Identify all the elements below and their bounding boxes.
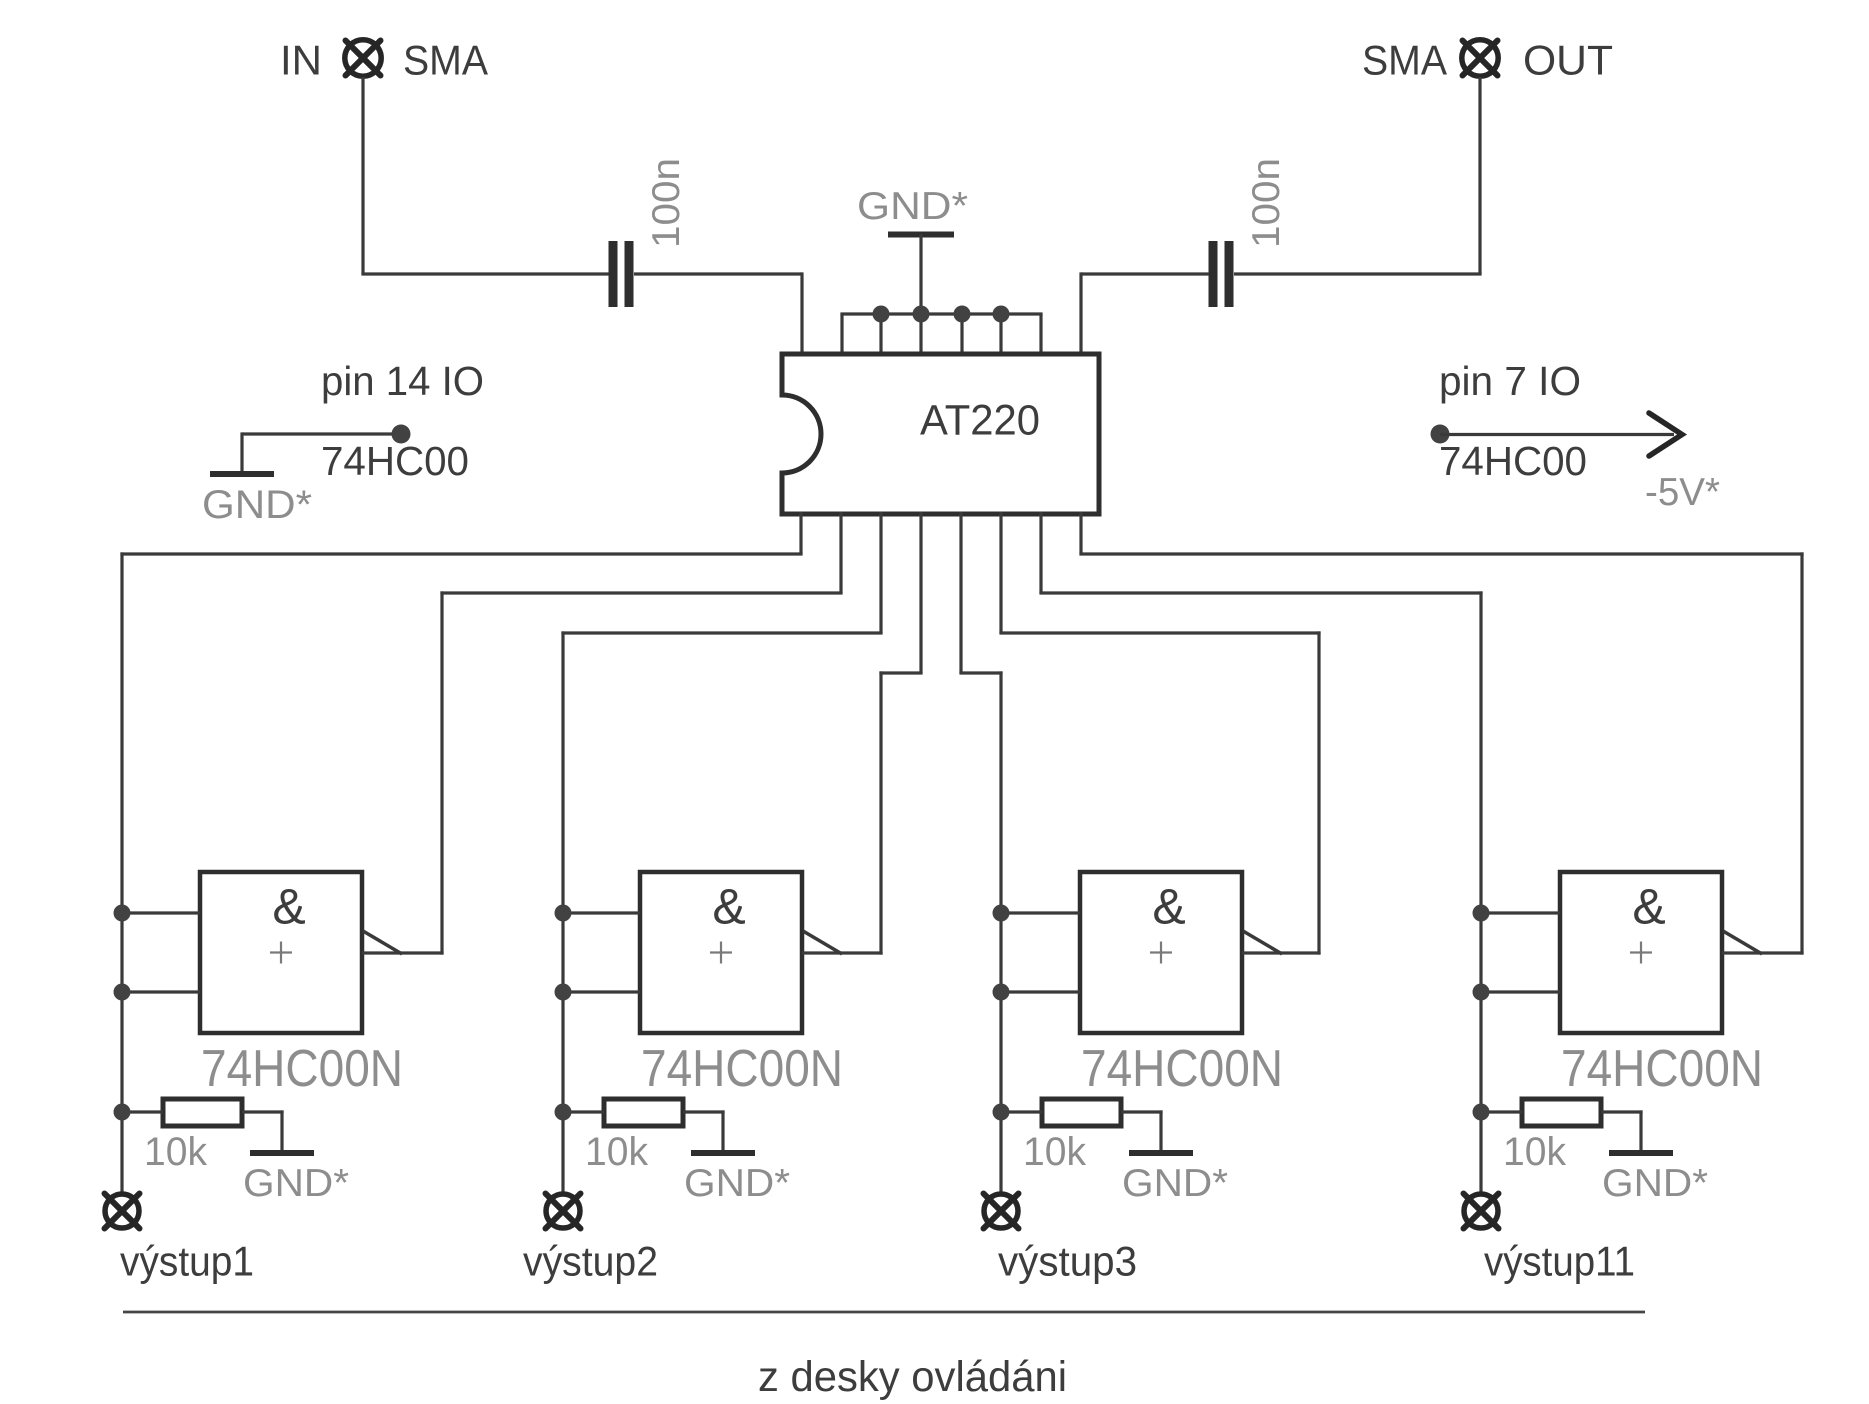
wire: IC bottom pin 3 (879, 512, 882, 633)
junction on bus (954, 306, 971, 323)
svg-text:IN: IN (280, 37, 322, 84)
wire: pin5 jog right (959, 671, 1002, 674)
wire: gate2 output riser (879, 671, 882, 954)
ground symbol (gate 2) (691, 1150, 755, 1156)
wire: bus to resistor (563, 1110, 604, 1113)
wire: down to IC top-right pin (1079, 272, 1082, 356)
separator line (123, 1311, 1645, 1314)
wire: resistor to ground (242, 1110, 284, 1113)
wire: U1A output (362, 951, 444, 954)
svg-text:pin 14 IO: pin 14 IO (321, 358, 484, 404)
junction: U1A input A (114, 905, 131, 922)
svg-text:-5V*: -5V* (1645, 471, 1720, 514)
wire: resistor to ground (1121, 1110, 1163, 1113)
junction dot (pin 14) (392, 425, 411, 444)
inversion slash on U1C output (1243, 931, 1282, 954)
wire: pin2 run left (440, 591, 842, 594)
wire: pin1 run left (120, 552, 802, 555)
ground symbol (left annotation) (210, 471, 274, 477)
junction: resistor tap (555, 1104, 572, 1121)
wire: U1C output (1242, 951, 1321, 954)
wire: U1A input B stub (122, 990, 200, 993)
wire: U1D input A stub (1481, 911, 1560, 914)
svg-text:74HC00N: 74HC00N (201, 1040, 403, 1098)
resistor 10k (gate 1 pull-down) (163, 1099, 242, 1126)
wire: IC bottom pin 5 (959, 512, 962, 673)
wire: gate1 output riser (440, 591, 443, 954)
wire: pin3 run left (561, 631, 882, 634)
junction: resistor tap (1473, 1104, 1490, 1121)
wire: bus stub to IC top pin (1039, 314, 1042, 356)
wire: pin7 run right (1039, 591, 1482, 594)
NAND gate U1C (74HC00N) (1080, 872, 1242, 1033)
wire: annotation arrow shaft (1440, 433, 1674, 436)
wire: IC bottom pin 7 (1039, 512, 1042, 593)
resistor 10k (gate 3 pull-down) (1042, 1099, 1121, 1126)
junction on bus (873, 306, 890, 323)
wire: pin6 run right (999, 631, 1320, 634)
wire: top pin bus (840, 312, 1042, 315)
wire: IC bottom pin 1 (799, 512, 802, 554)
resistor 10k (gate 11 pull-down) (1522, 1099, 1601, 1126)
svg-text:GND*: GND* (202, 483, 312, 527)
svg-text:74HC00N: 74HC00N (1081, 1040, 1283, 1098)
wire: IC bottom pin 4 (919, 512, 922, 673)
svg-text:GND*: GND* (1122, 1162, 1228, 1205)
wire: resistor to ground (1601, 1110, 1643, 1113)
connector vystup1 (105, 1194, 140, 1229)
ground symbol (gate 1) (250, 1150, 314, 1156)
connector vystup11 (1464, 1194, 1499, 1229)
svg-text:GND*: GND* (1602, 1162, 1708, 1205)
wire: bus to resistor (1481, 1110, 1522, 1113)
capacitor C2 (1209, 241, 1234, 307)
ground symbol (gate 11) (1609, 1150, 1673, 1156)
junction: U1D input B (1473, 984, 1490, 1001)
wire: gate3 input bus (999, 671, 1002, 1193)
wire: down to IC top-left pin (800, 272, 803, 356)
wire: bus stub to IC top pin (879, 314, 882, 356)
wire: gate4 output riser (1800, 552, 1803, 954)
inversion slash on U1A output (363, 931, 402, 954)
wire: U1B input A stub (563, 911, 640, 914)
svg-text:GND*: GND* (684, 1162, 790, 1205)
wire: U1B output (802, 951, 883, 954)
svg-text:SMA: SMA (403, 37, 488, 84)
wire: U1C input B stub (1001, 990, 1080, 993)
connector X2 (SMA OUT) (1462, 40, 1498, 76)
svg-text:74HC00N: 74HC00N (1561, 1040, 1763, 1098)
wire: bus to resistor (122, 1110, 163, 1113)
svg-text:100n: 100n (645, 158, 688, 248)
svg-text:OUT: OUT (1523, 37, 1613, 84)
wire: to C1 (361, 272, 609, 275)
resistor 10k (gate 2 pull-down) (604, 1099, 683, 1126)
svg-text:pin 7 IO: pin 7 IO (1439, 358, 1581, 404)
junction: U1B input A (555, 905, 572, 922)
svg-text:74HC00: 74HC00 (1439, 438, 1587, 484)
junction: U1C input B (993, 984, 1010, 1001)
connector vystup3 (984, 1194, 1019, 1229)
wire: IC bottom pin 8 (1079, 512, 1082, 554)
arrowhead (1649, 413, 1682, 456)
svg-text:74HC00: 74HC00 (321, 438, 469, 484)
wire: U1C input A stub (1001, 911, 1080, 914)
svg-text:z desky ovládáni: z desky ovládáni (758, 1353, 1067, 1401)
wire: bus stub to IC top pin (919, 314, 922, 356)
wire: IC bottom pin 2 (839, 512, 842, 593)
svg-text:AT220: AT220 (920, 397, 1040, 445)
svg-text:10k: 10k (585, 1130, 649, 1174)
wire: gate1 input bus (120, 552, 123, 1193)
svg-text:GND*: GND* (857, 185, 968, 228)
wire: U1D input B stub (1481, 990, 1560, 993)
svg-text:&: & (712, 879, 745, 935)
inversion slash on U1B output (803, 931, 842, 954)
svg-text:&: & (272, 879, 305, 935)
svg-text:výstup11: výstup11 (1484, 1238, 1635, 1285)
junction: resistor tap (993, 1104, 1010, 1121)
wire: IC bottom pin 6 (999, 512, 1002, 633)
NAND gate U1B (74HC00N) (640, 872, 802, 1033)
wire: gate2 input bus (561, 631, 564, 1193)
wire: C1 to IC pin (634, 272, 802, 275)
ground symbol (top center) (888, 232, 954, 238)
svg-text:výstup2: výstup2 (523, 1238, 658, 1285)
svg-text:výstup1: výstup1 (120, 1238, 254, 1285)
junction: U1B input B (555, 984, 572, 1001)
wire: IC pin to C2 (1081, 272, 1209, 275)
junction: U1C input A (993, 905, 1010, 922)
svg-text:10k: 10k (144, 1130, 208, 1174)
NAND gate U1A (74HC00N) (200, 872, 362, 1033)
wire: stem to ground (240, 432, 243, 471)
wire: bus to resistor (1001, 1110, 1042, 1113)
svg-text:10k: 10k (1023, 1130, 1087, 1174)
svg-text:SMA: SMA (1362, 37, 1447, 84)
wire: bus stub to IC top pin (960, 314, 963, 356)
wire: gate4 input bus (1479, 591, 1482, 1193)
wire: bus stub to IC top pin (999, 314, 1002, 356)
wire: annotation left (242, 432, 401, 435)
svg-text:&: & (1152, 879, 1185, 935)
wire: U1B input B stub (563, 990, 640, 993)
svg-text:100n: 100n (1245, 158, 1288, 248)
junction dot (pin 7) (1431, 425, 1450, 444)
svg-text:&: & (1632, 879, 1665, 935)
svg-text:10k: 10k (1503, 1130, 1567, 1174)
wire: U1D output (1722, 951, 1804, 954)
connector vystup2 (546, 1194, 581, 1229)
wire: pin8 run right (1079, 552, 1803, 555)
wire: resistor to ground (683, 1110, 725, 1113)
wire: X2 down (1478, 77, 1481, 274)
junction on bus (913, 306, 930, 323)
svg-text:74HC00N: 74HC00N (641, 1040, 843, 1098)
junction on bus (993, 306, 1010, 323)
junction: U1A input B (114, 984, 131, 1001)
IC U2 AT220 (782, 354, 1099, 514)
wire: bus stub to IC top pin (840, 314, 843, 356)
wire: gate3 output riser (1317, 631, 1320, 954)
wire: pin4 jog left (879, 671, 922, 674)
wire: ground stem to bus (919, 234, 922, 314)
junction: resistor tap (114, 1104, 131, 1121)
inversion slash on U1D output (1723, 931, 1762, 954)
wire: C2 to X2 (1234, 272, 1482, 275)
junction: U1D input A (1473, 905, 1490, 922)
wire: U1A input A stub (122, 911, 200, 914)
connector X1 (SMA IN) (345, 40, 381, 76)
wire: X1 down (361, 77, 364, 274)
svg-text:výstup3: výstup3 (998, 1238, 1137, 1285)
ground symbol (gate 3) (1129, 1150, 1193, 1156)
capacitor C1 (609, 241, 634, 307)
svg-text:GND*: GND* (243, 1162, 349, 1205)
NAND gate U1D (74HC00N) (1560, 872, 1722, 1033)
